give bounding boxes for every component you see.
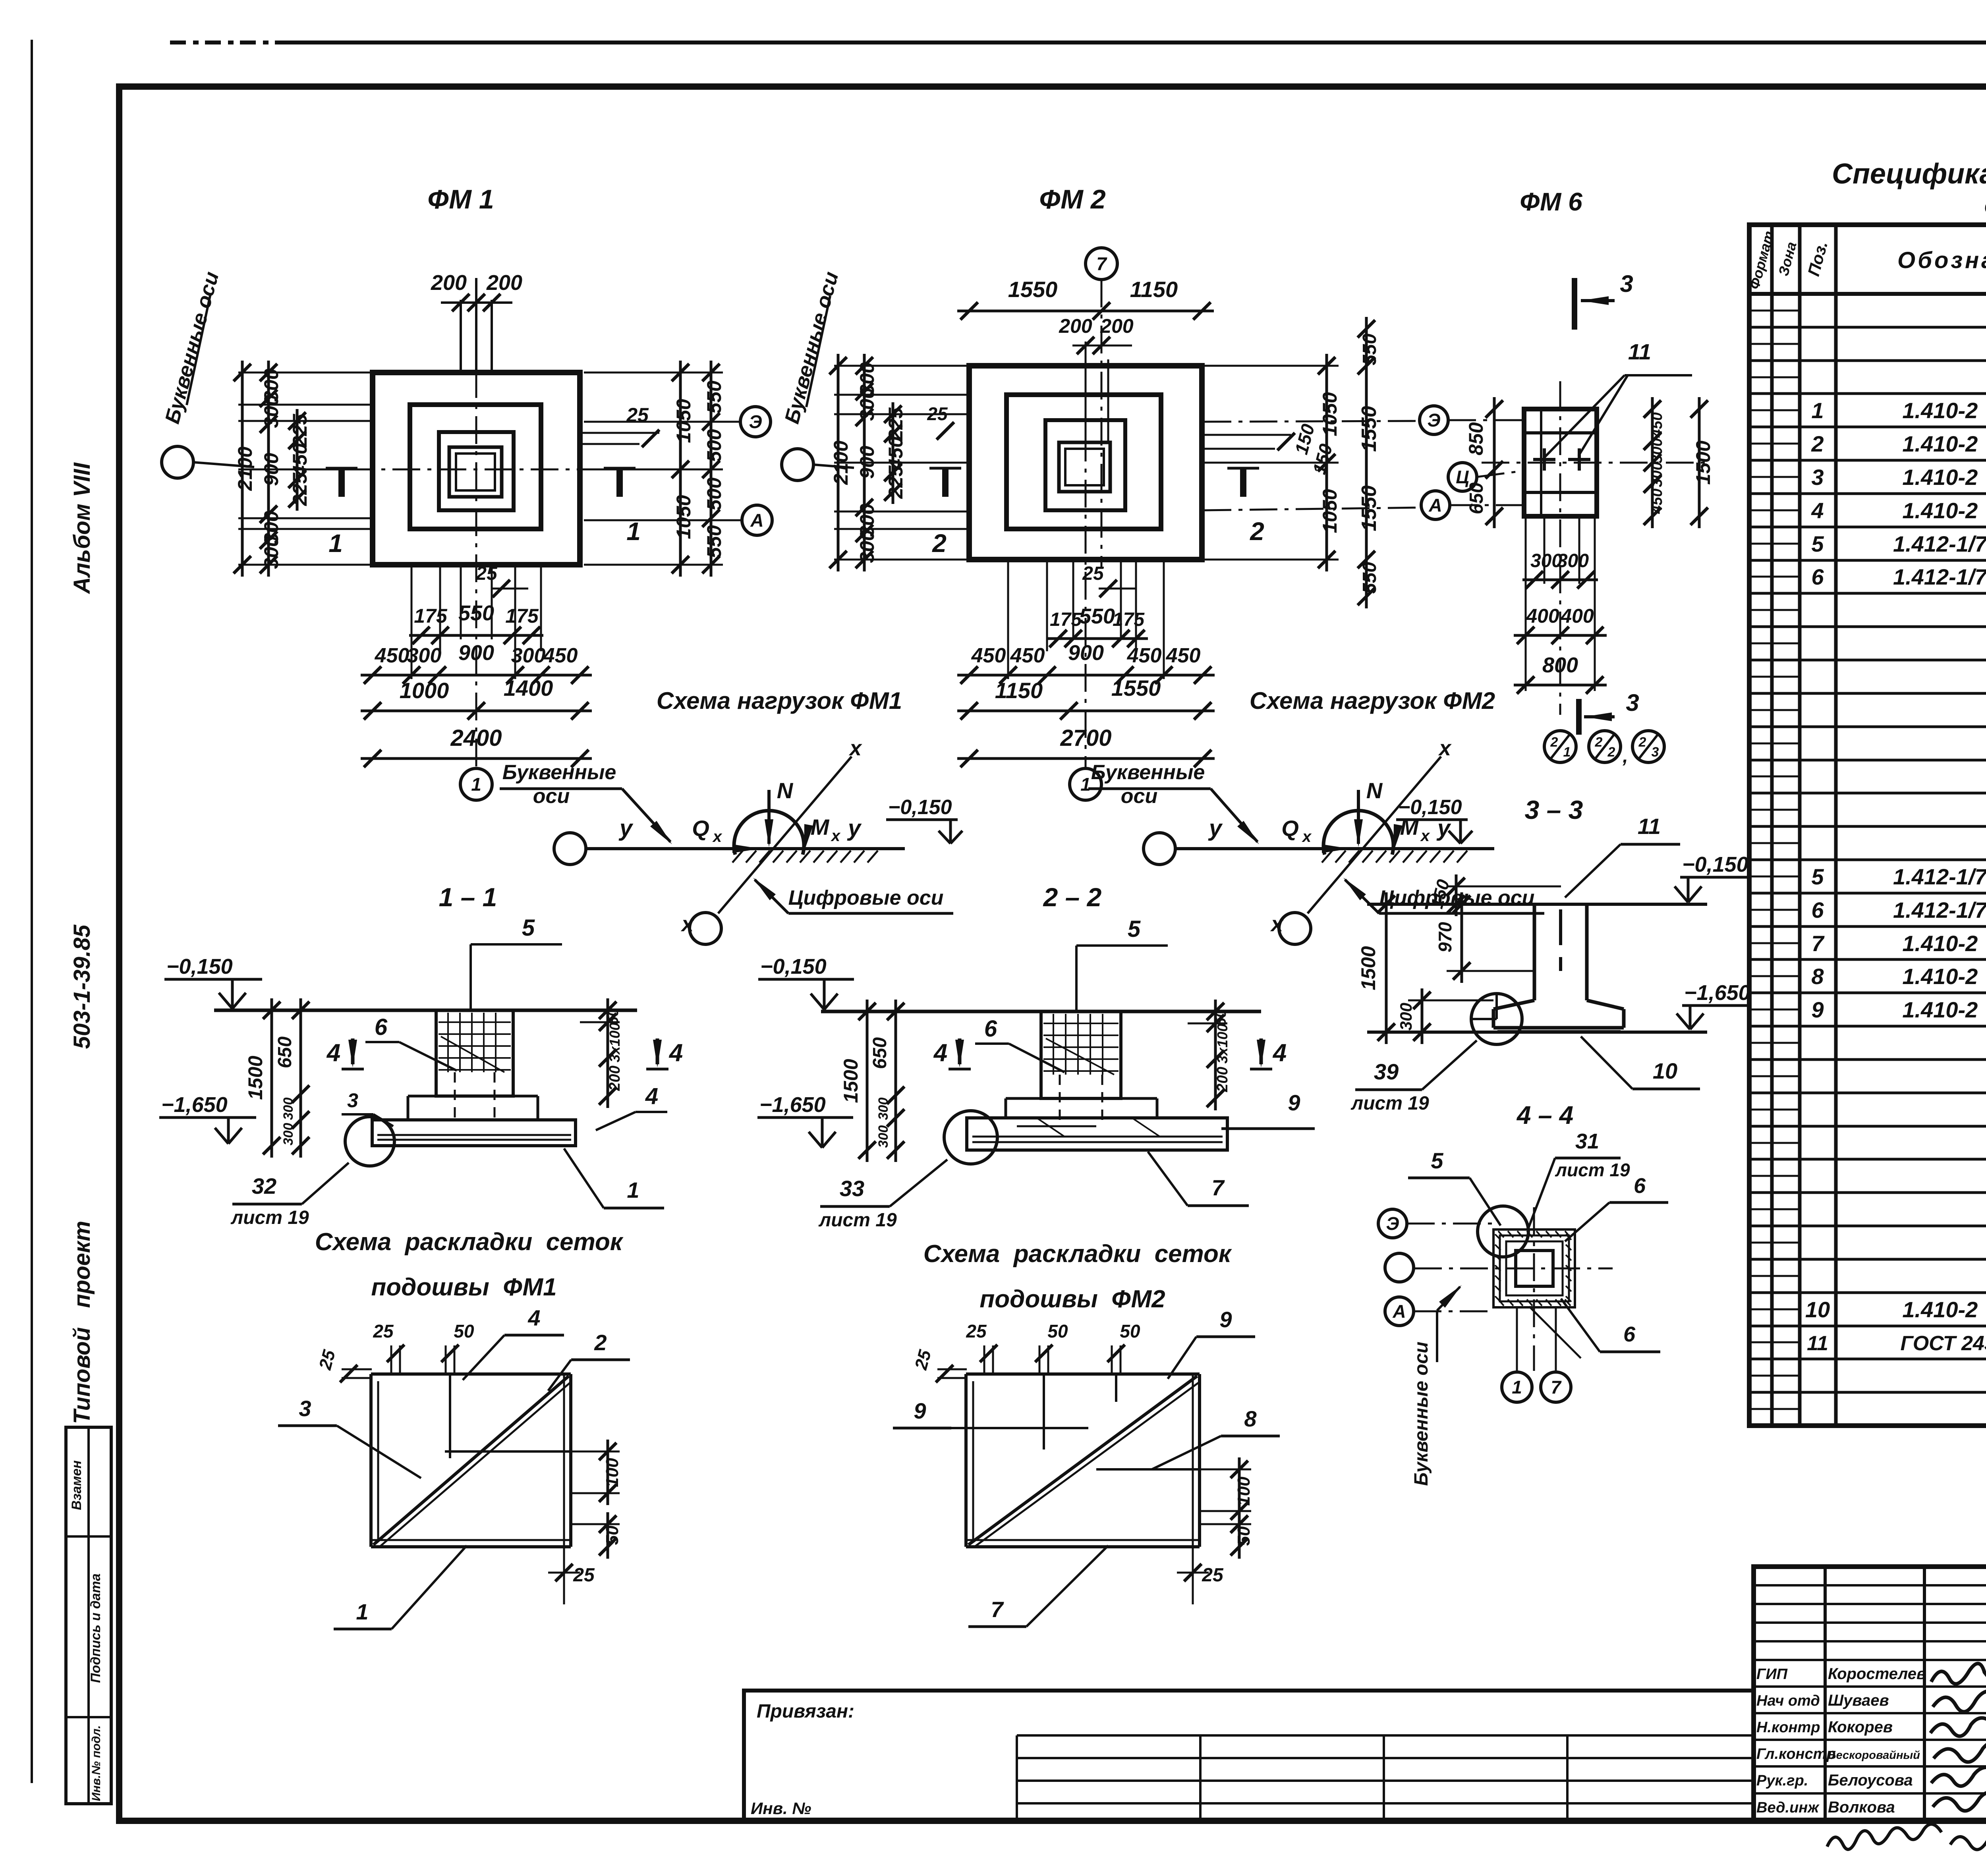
section 1-1 pier mesh grid [439, 1021, 511, 1023]
svg-text:4: 4 [1811, 498, 1824, 523]
svg-text:Схема нагрузок ФМ2: Схема нагрузок ФМ2 [1250, 687, 1495, 714]
svg-text:3x100: 3x100 [1214, 1024, 1231, 1063]
section 1-1 step [408, 1095, 436, 1098]
FM6 bolt extension lines down [1544, 516, 1546, 584]
svg-text:200: 200 [431, 271, 467, 295]
svg-text:970: 970 [1435, 922, 1455, 952]
svg-text:Альбом VIII: Альбом VIII [69, 462, 95, 594]
svg-text:1.410-2 Вып.1: 1.410-2 Вып.1 [1902, 1297, 1986, 1322]
svg-text:550: 550 [703, 525, 725, 558]
svg-text:3: 3 [1811, 465, 1824, 490]
svg-text:25: 25 [1082, 563, 1104, 584]
detail 4-4 axis circle A [1385, 1297, 1414, 1326]
svg-text:7: 7 [1551, 1377, 1562, 1397]
svg-text:7: 7 [991, 1597, 1004, 1622]
FM6 section mark 3 top [1572, 278, 1577, 330]
FM1 outer footing square [373, 372, 580, 565]
spec table narrow column half rows [1749, 310, 1800, 312]
sheet top edge line (broken) [170, 41, 278, 44]
FM2 bottom dim chain 175 550 175 [1046, 637, 1148, 640]
svg-text:−0,150: −0,150 [1398, 796, 1462, 819]
section 3-3 dim 970 [1461, 892, 1463, 983]
load scheme ФМ2 Qx arrow [1283, 847, 1347, 850]
svg-text:1500: 1500 [1692, 440, 1714, 484]
svg-text:31: 31 [1575, 1129, 1599, 1153]
svg-text:Кокорев: Кокорев [1828, 1718, 1893, 1736]
svg-text:650: 650 [869, 1037, 891, 1069]
title block signatures scribbles [1931, 1664, 1986, 1689]
svg-text:50: 50 [1120, 1321, 1140, 1341]
svg-text:−0,150: −0,150 [166, 955, 233, 979]
svg-text:450: 450 [1649, 488, 1665, 514]
svg-text:300: 300 [260, 536, 282, 569]
svg-text:2 – 2: 2 – 2 [1043, 882, 1102, 912]
svg-text:4: 4 [668, 1039, 683, 1067]
svg-text:225: 225 [885, 465, 907, 499]
svg-text:1550: 1550 [1358, 406, 1381, 452]
svg-text:ФМ 1: ФМ 1 [427, 184, 494, 214]
FM6 axis circle A [1421, 491, 1450, 519]
svg-text:450: 450 [289, 443, 311, 477]
mesh FM2 inner verticals [1043, 1374, 1045, 1449]
svg-text:Белоусова: Белоусова [1828, 1772, 1913, 1789]
FM2 left extension lines [834, 365, 970, 367]
svg-text:x: x [1302, 828, 1312, 845]
FM1 right dim chain 1050 1050 [679, 361, 682, 577]
svg-text:x: x [848, 736, 862, 760]
section 2-2 ground line [821, 1010, 1261, 1013]
FM1 bottom dim chain 450 300 900 300 450 [361, 674, 592, 677]
svg-text:2: 2 [1595, 735, 1603, 750]
svg-text:900: 900 [856, 446, 878, 479]
detail 4-4 nested column squares [1493, 1229, 1575, 1307]
FM1 left extension lines [238, 372, 373, 374]
load scheme ФМ2 numeric axes circle [1279, 913, 1311, 944]
svg-text:225: 225 [289, 413, 311, 448]
section 2-2 pier outline [1041, 1011, 1121, 1098]
svg-text:25: 25 [475, 563, 498, 584]
svg-text:подошвы ФМ2: подошвы ФМ2 [979, 1285, 1165, 1313]
svg-text:1500: 1500 [1357, 946, 1379, 990]
svg-text:А: А [1428, 495, 1442, 515]
FM6 axis split circle 2-2 [1589, 731, 1621, 762]
privyazan grid rows [1017, 1734, 1754, 1737]
svg-text:200: 200 [1214, 1067, 1231, 1092]
svg-text:1.410-2 Вып.1: 1.410-2 Вып.1 [1902, 465, 1986, 490]
svg-text:2700: 2700 [1060, 725, 1111, 751]
svg-text:200: 200 [1059, 315, 1092, 337]
detail 4-4 axis circle E [1378, 1209, 1407, 1238]
svg-text:Подпись и дата: Подпись и дата [88, 1573, 103, 1683]
svg-text:6: 6 [375, 1014, 388, 1040]
svg-text:Q: Q [692, 816, 709, 841]
FM1 right extension lines [584, 372, 723, 374]
mesh FM2 inner horizontal [1096, 1468, 1200, 1471]
section 2-2 pier dashed rebar tails [1059, 1075, 1061, 1124]
FM1 axis circle A [742, 505, 772, 535]
svg-text:3 – 3: 3 – 3 [1525, 795, 1583, 824]
FM6 axis split circle 2-1 [1544, 731, 1576, 762]
svg-text:Э: Э [749, 411, 762, 432]
svg-text:Взамен: Взамен [69, 1460, 84, 1510]
mesh FM1 diagonal [373, 1376, 569, 1545]
svg-text:А: А [1392, 1301, 1406, 1322]
FM6 right dim chain 450 300 300 450 [1651, 397, 1654, 528]
FM2 left dim chain 300-300-900-300-300 [863, 354, 866, 571]
svg-text:6: 6 [984, 1016, 997, 1042]
svg-text:подошвы ФМ1: подошвы ФМ1 [371, 1274, 556, 1301]
svg-text:3: 3 [1652, 745, 1659, 760]
svg-text:5: 5 [1811, 531, 1824, 556]
svg-text:175: 175 [1050, 609, 1082, 630]
FM6 vertical centerline [1559, 381, 1561, 715]
svg-text:300: 300 [856, 530, 878, 563]
svg-text:Коростелев: Коростелев [1828, 1665, 1926, 1683]
svg-text:900: 900 [260, 453, 282, 486]
svg-text:6: 6 [1634, 1174, 1646, 1198]
svg-text:450: 450 [971, 644, 1006, 667]
section 1-1 pier dashed rebar tails [454, 1072, 456, 1124]
svg-text:2100: 2100 [234, 446, 256, 491]
svg-text:1 – 1: 1 – 1 [439, 882, 497, 912]
svg-text:лист 19: лист 19 [1555, 1160, 1630, 1180]
title block thin top rows [1754, 1584, 1986, 1586]
svg-text:3x100: 3x100 [607, 1023, 623, 1062]
mesh FM2 bottom dim 25 [1184, 1564, 1202, 1581]
svg-text:Схема нагрузок ФМ1: Схема нагрузок ФМ1 [657, 687, 902, 714]
mesh FM2 square [966, 1372, 1200, 1376]
section 3-3 flange [1493, 1000, 1534, 1009]
svg-text:450: 450 [543, 644, 578, 667]
FM1 anchor bolt projection lines [460, 300, 462, 372]
svg-text:32: 32 [252, 1173, 276, 1199]
load scheme ФМ2 letter axes circle [1144, 833, 1175, 865]
detail 4-4 detail circle [1478, 1206, 1528, 1257]
svg-text:y: y [618, 815, 634, 841]
svg-text:650: 650 [274, 1036, 296, 1068]
svg-text:Буквенные: Буквенные [1091, 761, 1205, 784]
svg-text:6: 6 [1811, 564, 1824, 589]
svg-text:Привязан:: Привязан: [757, 1701, 854, 1722]
mesh FM1 bottom dim 25 [555, 1564, 573, 1581]
svg-text:300: 300 [407, 644, 442, 667]
svg-text:650: 650 [1466, 483, 1487, 514]
detail 4-4 middle axis circle [1385, 1253, 1414, 1282]
FM6 horizontal centerline [1482, 462, 1708, 464]
svg-text:850: 850 [1465, 422, 1487, 455]
svg-text:1: 1 [1080, 774, 1091, 795]
svg-text:2: 2 [932, 529, 947, 558]
FM1 letter axes head circle [162, 446, 193, 478]
svg-text:39: 39 [1374, 1059, 1399, 1084]
FM2 vertical axis line 7 [1101, 280, 1103, 568]
svg-text:Типовой проект: Типовой проект [69, 1221, 95, 1424]
svg-text:4 – 4: 4 – 4 [1516, 1101, 1573, 1129]
FM6 anchor bolt leader 11 [1545, 375, 1625, 457]
svg-text:5: 5 [1811, 864, 1824, 889]
load scheme ФМ2 N force arrow [1357, 790, 1360, 844]
mesh FM1 square [371, 1372, 571, 1376]
svg-text:1.410-2 Вып.1: 1.410-2 Вып.1 [1902, 997, 1986, 1022]
FM2 column section [1059, 442, 1110, 492]
svg-text:1.410-2 Вып.1: 1.410-2 Вып.1 [1902, 431, 1986, 456]
svg-text:1500: 1500 [840, 1059, 862, 1103]
svg-text:225: 225 [289, 472, 311, 506]
mesh FM1 right dim 100 50 [571, 1451, 620, 1453]
section 2-2 step [1006, 1097, 1041, 1100]
mesh FM1 left dim 25 [342, 1368, 372, 1370]
svg-text:1.410-2 Вып.1: 1.410-2 Вып.1 [1902, 964, 1986, 989]
svg-text:500: 500 [703, 429, 725, 462]
svg-text:503-1-39.85: 503-1-39.85 [69, 924, 95, 1049]
svg-text:Буквенные оси: Буквенные оси [1411, 1341, 1432, 1486]
svg-text:175: 175 [505, 605, 539, 627]
svg-text:4: 4 [645, 1083, 658, 1109]
FM2 outer footing square [969, 366, 1202, 560]
svg-text:Вед.инж: Вед.инж [1756, 1799, 1820, 1816]
svg-text:1.410-2 Вып.1: 1.410-2 Вып.1 [1902, 398, 1986, 423]
svg-text:−1,650: −1,650 [161, 1093, 228, 1117]
svg-text:N: N [777, 778, 794, 803]
svg-text:1: 1 [328, 529, 343, 558]
svg-text:ГОСТ 24379.1- 80: ГОСТ 24379.1- 80 [1900, 1332, 1986, 1355]
svg-text:300: 300 [281, 1098, 296, 1120]
section 1-1 leader 5 [469, 944, 472, 1009]
svg-text:Шуваев: Шуваев [1828, 1692, 1889, 1709]
FM6 bottom dim 300 300 [1522, 579, 1598, 581]
svg-text:1050: 1050 [1319, 489, 1341, 533]
svg-text:1.410-2 Вып.1: 1.410-2 Вып.1 [1902, 498, 1986, 523]
mesh FM1 inner horizontal [445, 1450, 571, 1453]
svg-text:M: M [811, 814, 830, 840]
svg-text:3: 3 [299, 1396, 311, 1421]
FM2 bottom dim chain 1150 1550 [957, 710, 1215, 712]
load scheme ФМ1 numeric axes circle [690, 913, 721, 944]
svg-text:25: 25 [966, 1321, 987, 1341]
svg-text:−0,150: −0,150 [888, 796, 952, 819]
FM1 bottom dim chain 175 550 175 [409, 634, 543, 637]
FM1 bottom dim chain 2400 [361, 757, 592, 760]
svg-text:2100: 2100 [830, 440, 852, 485]
FM2 vertical centerline [1085, 342, 1087, 768]
load scheme ФМ2 hatching [1322, 851, 1332, 863]
svg-text:7: 7 [1096, 253, 1107, 274]
FM2 dim 25 small left [937, 422, 954, 440]
svg-text:200: 200 [1100, 315, 1134, 337]
FM2 upper step square [1045, 420, 1125, 510]
svg-text:25: 25 [573, 1565, 595, 1586]
section 2-2 pier mesh grid [1043, 1023, 1119, 1024]
svg-text:Q: Q [1281, 816, 1299, 841]
load scheme ФМ1 letter axes circle [554, 833, 586, 865]
svg-text:175: 175 [1113, 609, 1145, 630]
section 1-1 dim 650 300 300 [299, 998, 302, 1158]
svg-text:900: 900 [1068, 641, 1104, 665]
svg-text:2400: 2400 [450, 725, 502, 751]
svg-text:11: 11 [1628, 339, 1651, 364]
svg-text:9: 9 [1219, 1307, 1232, 1332]
FM2 right dim chain 1050 1050 [1325, 354, 1328, 571]
svg-text:Инв. №: Инв. № [751, 1799, 811, 1818]
svg-text:лист 19: лист 19 [230, 1207, 309, 1228]
svg-text:ГИП: ГИП [1756, 1666, 1788, 1683]
detail 4-4 vertical centerline [1533, 1207, 1535, 1371]
svg-text:1050: 1050 [1319, 392, 1341, 436]
svg-text:25: 25 [1202, 1565, 1224, 1586]
section 1-1 dim 1500 [270, 998, 273, 1158]
FM1 right dim chain 550 500 500 550 [710, 361, 713, 577]
FM6 bottom dim 800 [1514, 684, 1607, 687]
FM2 top dim chain 1550 1150 [957, 310, 1214, 313]
svg-text:225: 225 [885, 407, 907, 441]
section 1-1 base slab [372, 1120, 576, 1146]
svg-text:300: 300 [1649, 462, 1665, 487]
svg-text:1150: 1150 [1130, 277, 1178, 302]
svg-text:1: 1 [626, 517, 641, 546]
svg-text:x: x [1420, 827, 1430, 845]
FM6 plan rectangle [1524, 409, 1597, 516]
svg-text:А: А [750, 510, 763, 531]
FM6 right dim chain 1500 [1698, 397, 1701, 528]
svg-text:1.412-1/77 Вып.3: 1.412-1/77 Вып.3 [1893, 531, 1986, 556]
section 2-2 slab mesh lines [972, 1136, 1223, 1138]
section 3-3 base lines [1497, 1030, 1621, 1033]
FM1 column section [449, 447, 502, 497]
FM6 left dim chain 850 650 [1493, 397, 1496, 528]
FM6 section mark 3 bottom [1576, 699, 1582, 735]
svg-text:450: 450 [885, 436, 907, 470]
load scheme ФМ1 ground line [585, 847, 905, 850]
FM2 top dim 200 200 [1072, 345, 1132, 347]
FM1 left dim chain 225 450 225 [296, 409, 299, 511]
svg-text:лист 19: лист 19 [818, 1210, 897, 1231]
load scheme ФМ1 N force arrow [767, 790, 771, 844]
svg-text:6: 6 [1623, 1322, 1636, 1346]
svg-text:−0,150: −0,150 [1682, 853, 1748, 876]
section 1-1 slab mesh lines [377, 1134, 571, 1136]
svg-text:50: 50 [603, 1525, 622, 1545]
svg-text:50: 50 [454, 1321, 474, 1341]
svg-text:50: 50 [605, 1008, 622, 1025]
spec table outer border [1749, 225, 1986, 1426]
svg-text:−1,650: −1,650 [1684, 981, 1750, 1005]
FM6 inner band lines [1524, 431, 1597, 434]
svg-text:4: 4 [933, 1039, 947, 1067]
FM1 upper step square [439, 432, 514, 510]
svg-text:6: 6 [1811, 897, 1824, 923]
spec table header bottom line [1749, 292, 1986, 296]
svg-text:9: 9 [1288, 1090, 1300, 1115]
svg-text:лист 19: лист 19 [1350, 1093, 1429, 1114]
svg-text:2: 2 [1250, 517, 1264, 546]
svg-text:25: 25 [626, 404, 649, 426]
section 3-3 anchor bolt dashed [1559, 909, 1562, 945]
load scheme ФМ1 moment arc Mx [734, 811, 804, 855]
FM1 horizontal centerline [254, 469, 695, 471]
svg-text:−1,650: −1,650 [759, 1093, 826, 1117]
svg-text:x: x [1438, 736, 1452, 760]
svg-text:25: 25 [927, 403, 948, 424]
section 1-1 pier outline [436, 1010, 513, 1096]
svg-text:1: 1 [1512, 1377, 1522, 1397]
svg-text:1.412-1/77 Вып.3: 1.412-1/77 Вып.3 [1893, 897, 1986, 923]
svg-text:450: 450 [1649, 412, 1665, 438]
load scheme ФМ1 Qx arrow [694, 847, 757, 850]
svg-text:Обозначение: Обозначение [1897, 247, 1986, 273]
FM2 axis line E [1204, 421, 1420, 422]
FM1 axis circle E [740, 407, 771, 437]
svg-text:300: 300 [260, 395, 282, 428]
section 3-3 stem [1533, 904, 1536, 1000]
svg-text:−0,150: −0,150 [760, 955, 827, 979]
section 2-2 dim 1500 [866, 1000, 869, 1162]
FM1 axis line A [584, 519, 741, 521]
svg-text:Спецификация фундаментов ФМ: Спецификация фундаментов ФМ1, ФМ2, [1832, 158, 1986, 190]
svg-text:550: 550 [1359, 562, 1380, 594]
FM2 middle step square [1007, 395, 1161, 529]
FM1 bottom bolt extension lines [411, 565, 413, 679]
FM6 axis split circle 2-3 [1632, 731, 1664, 762]
svg-text:y: y [1208, 815, 1223, 841]
section 2-2 leader 5 [1075, 946, 1078, 1010]
svg-text:300: 300 [1649, 438, 1665, 463]
svg-text:400: 400 [1526, 605, 1559, 627]
FM2 left dim chain 225 450 225 [892, 402, 894, 504]
svg-text:100: 100 [603, 1458, 622, 1487]
svg-text:10: 10 [1653, 1058, 1677, 1083]
svg-text:200: 200 [486, 271, 522, 295]
svg-text:4: 4 [1272, 1039, 1287, 1067]
svg-text:1050: 1050 [672, 495, 695, 539]
svg-text:Бескоровайный: Бескоровайный [1828, 1749, 1920, 1762]
FM2 dim 150 150 right small [1204, 434, 1291, 436]
privyazan grid columns [1016, 1735, 1018, 1821]
FM6 axis circle E [1420, 406, 1448, 434]
svg-text:Цифровые оси: Цифровые оси [788, 886, 944, 909]
svg-text:25: 25 [373, 1321, 394, 1341]
svg-text:300: 300 [281, 1123, 296, 1146]
FM2 axis line A [1204, 508, 1422, 510]
FM1 section mark 1 left [338, 468, 345, 497]
svg-text:300: 300 [1557, 550, 1589, 571]
FM1 bottom dim 25 [493, 580, 510, 597]
FM1 left dim chain 2100 [241, 361, 244, 577]
svg-text:4: 4 [326, 1039, 340, 1067]
section 2-2 buried outline dashed [968, 1117, 1226, 1119]
svg-text:450: 450 [375, 644, 410, 667]
load scheme ФМ1 hatching [732, 851, 743, 863]
mesh FM1 inner vertical [449, 1374, 451, 1458]
svg-text:8: 8 [1244, 1406, 1257, 1431]
svg-text:x: x [712, 828, 723, 845]
svg-text:x: x [831, 827, 841, 845]
svg-text:2: 2 [594, 1330, 607, 1355]
svg-text:10: 10 [1805, 1297, 1830, 1322]
svg-text:1.412-1/77 Вып.3: 1.412-1/77 Вып.3 [1893, 864, 1986, 889]
svg-text:x: x [1270, 912, 1284, 936]
FM6 bottom dim 400 400 [1514, 634, 1607, 637]
title block left columns [1824, 1567, 1827, 1821]
detail 4-4 bottom axis circles 1 7 [1516, 1307, 1518, 1371]
svg-text:1.410-2 Вып.1: 1.410-2 Вып.1 [1902, 931, 1986, 956]
svg-text:Инв.№ подл.: Инв.№ подл. [90, 1725, 103, 1801]
svg-text:800: 800 [1542, 653, 1578, 677]
svg-text:550: 550 [1359, 334, 1380, 365]
svg-text:11: 11 [1807, 1332, 1828, 1355]
section 2-2 dim 650 300 300 [894, 1000, 897, 1162]
svg-text:1.412-1/77 Вып.3: 1.412-1/77 Вып.3 [1893, 564, 1986, 589]
detail 4-4 horizontal centerline [1414, 1268, 1613, 1270]
